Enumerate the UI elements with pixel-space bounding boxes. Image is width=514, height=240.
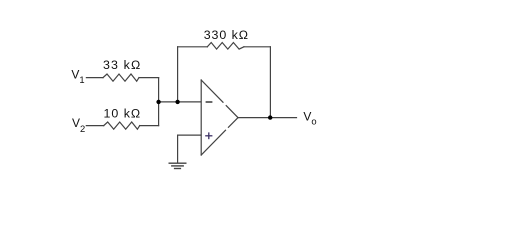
wire from 33k to node column (139, 77, 159, 79)
wire output (238, 117, 297, 119)
wire feedback top right (244, 46, 271, 48)
svg-text:330 kΩ: 330 kΩ (204, 28, 249, 42)
resistor 10 kOhm zigzag (104, 122, 140, 129)
op-amp minus input sign (206, 101, 213, 103)
svg-text:V2: V2 (72, 116, 85, 134)
wire from 10k to node column (140, 125, 159, 127)
wire ground drop (177, 135, 179, 162)
svg-text:33 kΩ: 33 kΩ (103, 58, 141, 72)
ground symbol (169, 163, 187, 168)
resistor 330 kOhm zigzag (207, 43, 244, 50)
op-amp U1 triangle (200, 80, 202, 155)
resistor 33 kOhm zigzag (103, 74, 139, 81)
op-amp plus input sign (205, 132, 212, 139)
wire vertical joining both inputs (158, 78, 160, 126)
junction dot at output (268, 115, 272, 119)
junction dot at resistor join node (156, 100, 160, 104)
junction dot at feedback tap (175, 100, 179, 104)
wire V1 lead (86, 77, 103, 79)
wire feedback top left (178, 46, 208, 48)
wire to non-inverting input (178, 134, 201, 136)
wire to inverting input (159, 101, 201, 103)
svg-text:V1: V1 (71, 68, 84, 85)
wire feedback left riser (177, 47, 179, 102)
svg-text:Vo: Vo (303, 109, 316, 126)
wire feedback right drop to output (269, 47, 271, 118)
wire V2 lead (86, 125, 103, 127)
svg-text:10 kΩ: 10 kΩ (104, 106, 142, 120)
